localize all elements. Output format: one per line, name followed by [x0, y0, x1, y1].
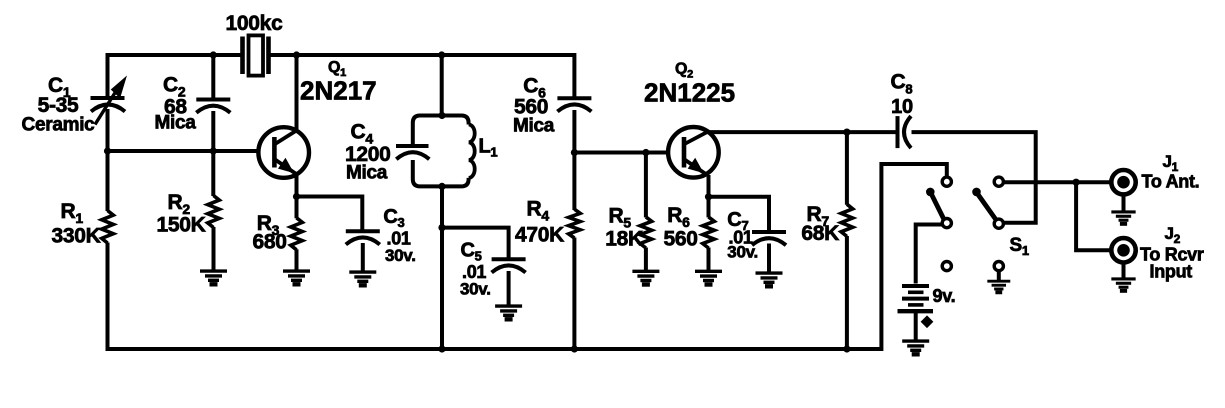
svg-text:C3: C3 [383, 206, 404, 230]
wire R7 to bottom rail [845, 236, 849, 349]
svg-text:R6: R6 [667, 204, 690, 230]
wire C3 to ground [361, 243, 365, 271]
ground S1 [987, 281, 1010, 292]
inductor L1 coil [469, 125, 475, 178]
wire to J2 [1076, 182, 1110, 250]
junction bottom rail / tank [438, 345, 445, 352]
wire C6 to Q2 base node [572, 110, 576, 153]
jack J1 To Ant. [1111, 170, 1135, 194]
tank circuit frame (C4 parallel L1) [413, 116, 469, 147]
battery B1 9v [898, 286, 934, 311]
wire C1 bottom to base node [106, 109, 110, 152]
junction bottom rail / R4 [571, 345, 578, 352]
wire C2 top stub [211, 55, 215, 100]
junction J1 wire / J2 drop [1073, 179, 1080, 186]
svg-text:R1: R1 [61, 200, 84, 226]
svg-text:330K: 330K [51, 225, 100, 248]
wire tank bottom to rail [440, 186, 444, 349]
resistor R7 68K [841, 204, 853, 236]
resistor R2 150K [208, 196, 220, 228]
ground R6 [695, 271, 722, 284]
S1 pole B ground contact [994, 262, 1003, 271]
wire Q2 collector to C8 [707, 130, 898, 134]
wire top rail left (C1 top to crystal) [108, 53, 242, 57]
S1 pole B arm [977, 193, 996, 219]
svg-text:2N217: 2N217 [300, 76, 377, 106]
transistor Q2 2N1225 [668, 127, 719, 178]
wire R6 to ground [707, 248, 711, 271]
S1 pole B upper contact [994, 177, 1003, 186]
junction top rail / C2 [210, 51, 217, 58]
svg-text:Input: Input [1150, 262, 1193, 282]
svg-text:Mica: Mica [155, 113, 197, 134]
wire Q1 emitter to C3 [295, 197, 362, 232]
resistor R1 330K [102, 211, 114, 244]
wire S1 ground contact stub [997, 271, 1001, 280]
svg-text:470K: 470K [515, 224, 564, 247]
junction tank leg / C5 [438, 224, 445, 231]
S1 pole A unused contact [942, 262, 951, 271]
wire C2 bottom stub [211, 111, 215, 151]
ground R5 [632, 271, 659, 284]
ground R3 [283, 271, 310, 284]
ground J2 [1111, 279, 1135, 291]
wire S1 pole A to battery [916, 225, 943, 284]
crystal Y1 100kc [243, 35, 269, 75]
junction top rail / tank [438, 51, 445, 58]
svg-text:30v.: 30v. [727, 243, 758, 262]
wire Q1 collector [295, 55, 299, 131]
wire C1 top stub [106, 53, 110, 98]
wire R2 to ground [212, 227, 216, 270]
svg-text:18K: 18K [605, 228, 643, 251]
svg-text:100kc: 100kc [226, 12, 284, 35]
wire R5 to ground [644, 248, 648, 271]
wire rail to tank top [440, 55, 444, 116]
svg-text:9v.: 9v. [933, 286, 956, 306]
wire Q1 emitter to R3 [295, 197, 299, 219]
junction Q2 emitter / R6 / C7 [705, 193, 712, 200]
S1 pole A lower contact [942, 219, 951, 228]
wire C6 top stub [572, 53, 576, 98]
svg-text:68K: 68K [801, 222, 839, 245]
capacitor C8 10 [898, 116, 912, 148]
wire C5 to ground [507, 271, 511, 305]
wire R3 to ground [295, 249, 299, 270]
svg-text:J2: J2 [1165, 224, 1181, 246]
capacitor C5 .01 30v [492, 259, 526, 272]
junction C6 / R4 / base wire [571, 149, 578, 156]
arrow of variable capacitor C1 [95, 77, 126, 125]
capacitor C7 .01 30v [752, 232, 786, 245]
wire S1 to J1 [1004, 180, 1111, 184]
ground C3 [349, 272, 376, 285]
wire base node to R1 [106, 151, 110, 211]
wire R1 to bottom rail [106, 243, 110, 352]
svg-text:To Ant.: To Ant. [1142, 172, 1200, 192]
wire base wire to R2 [211, 151, 215, 196]
svg-text:150K: 150K [157, 214, 206, 237]
resistor R6 560 [703, 217, 715, 248]
svg-text:Mica: Mica [346, 163, 388, 184]
wire battery to ground [914, 311, 918, 340]
svg-text:R4: R4 [527, 198, 550, 224]
capacitor C1 variable 5-35 ceramic [91, 98, 126, 112]
ground C7 [756, 273, 783, 286]
ground R2 [200, 271, 227, 284]
resistor R5 18K [640, 217, 652, 248]
svg-text:680: 680 [253, 231, 287, 254]
svg-text:2N1225: 2N1225 [644, 78, 735, 108]
wire base to R5 [644, 153, 648, 218]
svg-text:Ceramic: Ceramic [22, 115, 96, 136]
capacitor C2 68 Mica [196, 100, 230, 113]
junction node C1/R1/base [104, 147, 111, 154]
tank frame bottom [413, 160, 469, 186]
junction C2 / base wire [210, 147, 217, 154]
wire emitter to C7 [707, 197, 769, 232]
svg-text:30v.: 30v. [460, 280, 491, 299]
junction top rail / Q1 collector [293, 51, 300, 58]
wire Q2 base [574, 151, 668, 155]
wire to C5 [442, 228, 509, 260]
wire Q2 emitter [707, 175, 711, 197]
wire Q1 base [108, 149, 260, 153]
jack J2 To Rcvr Input [1111, 238, 1135, 262]
capacitor C4 1200 Mica [396, 146, 429, 159]
capacitor C3 .01 30v [346, 231, 380, 244]
svg-text:Mica: Mica [513, 116, 555, 137]
svg-text:L1: L1 [479, 136, 498, 160]
wire collector to R7 [845, 132, 849, 205]
svg-text:C8: C8 [891, 71, 913, 97]
wire Q1 emitter [295, 175, 299, 197]
ground J1 [1111, 212, 1135, 224]
resistor R4 470K [569, 209, 581, 238]
transistor Q1 2N217 [258, 127, 309, 178]
wire bottom rail to S1 pole A [881, 164, 946, 351]
wire top rail right (crystal to C6) [269, 53, 575, 57]
svg-text:S1: S1 [1010, 235, 1029, 258]
junction Q1 emitter / R3 / C3 [293, 193, 300, 200]
junction collector wire / R7 [843, 129, 850, 136]
junction tank bottom node [438, 183, 445, 190]
S1 pole A upper contact [942, 177, 951, 186]
resistor R3 680 [291, 218, 303, 250]
wire emitter to R6 [707, 197, 711, 218]
svg-text:10: 10 [891, 96, 913, 118]
wire C8 to S1 pole B lower contact [912, 132, 1036, 223]
S1 pole B lower contact [994, 219, 1003, 228]
wire bottom rail [108, 347, 882, 351]
junction bottom rail / R7 [843, 345, 850, 352]
svg-text:C5: C5 [461, 240, 482, 264]
wire J1 to ground [1122, 195, 1126, 212]
ground C5 [495, 306, 522, 319]
junction tank top node [438, 112, 445, 119]
svg-text:560: 560 [664, 228, 698, 251]
wire C7 to ground [767, 244, 771, 273]
ground battery [902, 341, 929, 354]
wire R4 to bottom rail [572, 238, 576, 350]
S1 pole A arm [931, 193, 944, 219]
battery plus mark [921, 315, 934, 328]
junction base wire / R5 [642, 149, 649, 156]
svg-text:30v.: 30v. [385, 246, 416, 265]
wire J2 to ground [1122, 263, 1126, 279]
capacitor C6 560 Mica [557, 98, 591, 111]
wire C6 node to R4 [572, 153, 576, 211]
